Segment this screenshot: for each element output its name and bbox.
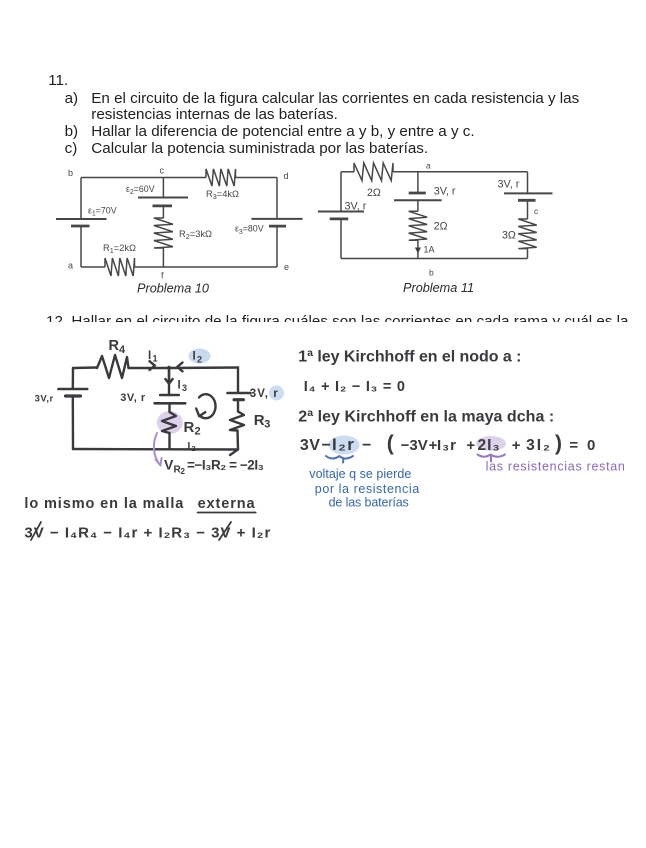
svg-text:3V: 3V xyxy=(300,437,321,454)
svg-text:4: 4 xyxy=(119,344,126,356)
svg-text:externa: externa xyxy=(198,496,256,512)
svg-text:3V,r: 3V,r xyxy=(35,394,54,405)
svg-text:I₄ + I₂ − I₃ = 0: I₄ + I₂ − I₃ = 0 xyxy=(304,379,406,395)
svg-text:=−I₃R₂ = −2I₃: =−I₃R₂ = −2I₃ xyxy=(187,458,264,473)
svg-text:3I₂: 3I₂ xyxy=(526,437,552,454)
svg-text:2I₃: 2I₃ xyxy=(478,437,501,454)
svg-text:): ) xyxy=(555,432,562,455)
svg-text:las resistencias restan: las resistencias restan xyxy=(486,460,626,474)
svg-text:3V, r: 3V, r xyxy=(250,388,279,400)
svg-text:I₂r: I₂r xyxy=(332,435,355,454)
svg-text:1ª ley Kirchhoff en el nodo a: 1ª ley Kirchhoff en el nodo a : xyxy=(298,349,521,366)
svg-text:−: − xyxy=(362,437,371,454)
svg-text:0: 0 xyxy=(587,437,595,454)
svg-text:por la resistencia: por la resistencia xyxy=(315,482,420,496)
svg-text:−: − xyxy=(322,437,331,454)
svg-text:I₃r: I₃r xyxy=(437,437,457,454)
svg-text:3: 3 xyxy=(182,383,188,393)
svg-text:1: 1 xyxy=(153,354,159,364)
svg-text:voltaje q se pierde: voltaje q se pierde xyxy=(309,467,411,481)
svg-text:3V, r: 3V, r xyxy=(120,392,146,404)
svg-text:2: 2 xyxy=(181,467,186,476)
svg-text:3V − I₄R₄ − I₄r + I₂R₃ − 3V +: 3V − I₄R₄ − I₄r + I₂R₃ − 3V + I₂r xyxy=(24,525,271,542)
svg-text:−3V: −3V xyxy=(401,437,428,454)
svg-text:(: ( xyxy=(387,432,394,455)
svg-text:+: + xyxy=(512,437,521,454)
svg-text:2: 2 xyxy=(195,426,202,438)
svg-text:2: 2 xyxy=(197,355,203,365)
svg-text:de las baterías: de las baterías xyxy=(329,496,409,510)
svg-text:2ª ley Kirchhoff en la maya dc: 2ª ley Kirchhoff en la maya dcha : xyxy=(298,409,554,426)
svg-text:lo mismo en la malla: lo mismo en la malla xyxy=(24,496,184,512)
svg-text:2: 2 xyxy=(192,444,197,453)
svg-text:=: = xyxy=(569,437,578,454)
svg-text:+: + xyxy=(466,437,475,454)
svg-text:3: 3 xyxy=(264,419,271,431)
